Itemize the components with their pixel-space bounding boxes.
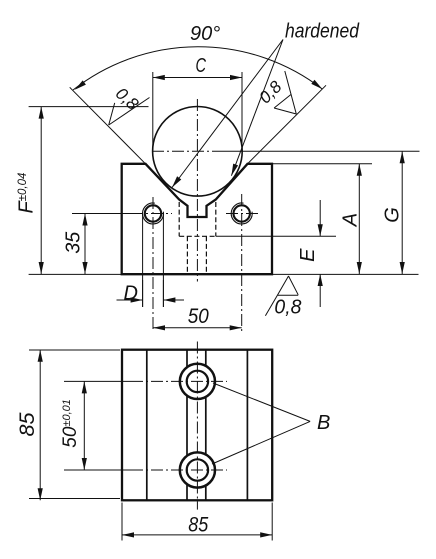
A dimension bbox=[358, 164, 360, 274]
right counterbore hole front view bbox=[231, 203, 252, 224]
85 dimension left bbox=[29, 350, 120, 501]
svg-text:G: G bbox=[382, 207, 404, 223]
svg-text:90°: 90° bbox=[190, 23, 220, 45]
bottom edge extension right bbox=[272, 273, 419, 275]
F dimension bbox=[40, 107, 42, 274]
lower hole top view bbox=[180, 452, 215, 487]
right hole center lines bbox=[226, 213, 259, 215]
D dimension bbox=[117, 280, 185, 307]
counterbore tangent lines below left hole bbox=[142, 214, 144, 307]
cylinder in V-groove bbox=[153, 107, 243, 197]
svg-text:85: 85 bbox=[16, 412, 39, 436]
C dimension bbox=[153, 72, 242, 150]
E extension line from counterbore shoulder bbox=[216, 235, 336, 237]
50 dimension front view bbox=[153, 327, 242, 329]
slot edge lines top view bbox=[186, 350, 188, 501]
hardened leader to cylinder bbox=[231, 40, 283, 176]
lower hole center line horizontal bbox=[64, 469, 131, 471]
svg-text:D: D bbox=[124, 283, 138, 305]
block outline front view bbox=[122, 164, 272, 274]
upper hole top view bbox=[180, 364, 215, 399]
left hole center lines bbox=[72, 213, 131, 215]
top view outline bbox=[122, 350, 272, 501]
left counterbore hole front view bbox=[142, 203, 163, 224]
hidden counterbore under slot bbox=[179, 202, 216, 274]
svg-text:85: 85 bbox=[188, 513, 208, 536]
right V-face extension line bbox=[248, 85, 327, 164]
E dimension bbox=[319, 200, 321, 236]
svg-text:B: B bbox=[317, 412, 330, 434]
V-groove edge lines top view bbox=[146, 350, 148, 501]
svg-text:50: 50 bbox=[188, 305, 209, 328]
roughness symbol right V-face bbox=[274, 71, 296, 114]
center line horizontal cylinder bbox=[152, 150, 214, 152]
svg-text:0,8: 0,8 bbox=[274, 297, 301, 319]
35 dimension bbox=[84, 214, 86, 275]
left V-face extension line bbox=[70, 87, 146, 164]
50 +-0.01 dimension bbox=[83, 381, 85, 470]
roughness symbol bottom face bbox=[265, 276, 298, 316]
svg-text:hardened: hardened bbox=[285, 20, 360, 42]
roughness symbol left V-face bbox=[109, 98, 150, 126]
G extension line from cylinder axis bbox=[214, 150, 420, 152]
center line vertical top view bbox=[196, 342, 198, 510]
G dimension bbox=[401, 151, 403, 274]
bottom edge extension left bbox=[29, 273, 122, 275]
cylinder top extension line bbox=[29, 106, 149, 108]
hardened leader to left V-face bbox=[172, 40, 283, 188]
svg-text:A: A bbox=[339, 213, 361, 227]
90 degree dimension arc bbox=[73, 47, 322, 90]
center line vertical cylinder bbox=[196, 99, 198, 282]
svg-text:35: 35 bbox=[63, 231, 85, 254]
B leaders bbox=[213, 383, 310, 421]
85 dimension bottom bbox=[122, 503, 272, 541]
svg-text:C: C bbox=[196, 55, 207, 77]
top edge extension right bbox=[272, 163, 372, 165]
upper hole center line horizontal bbox=[64, 380, 131, 382]
svg-text:E: E bbox=[297, 248, 319, 262]
